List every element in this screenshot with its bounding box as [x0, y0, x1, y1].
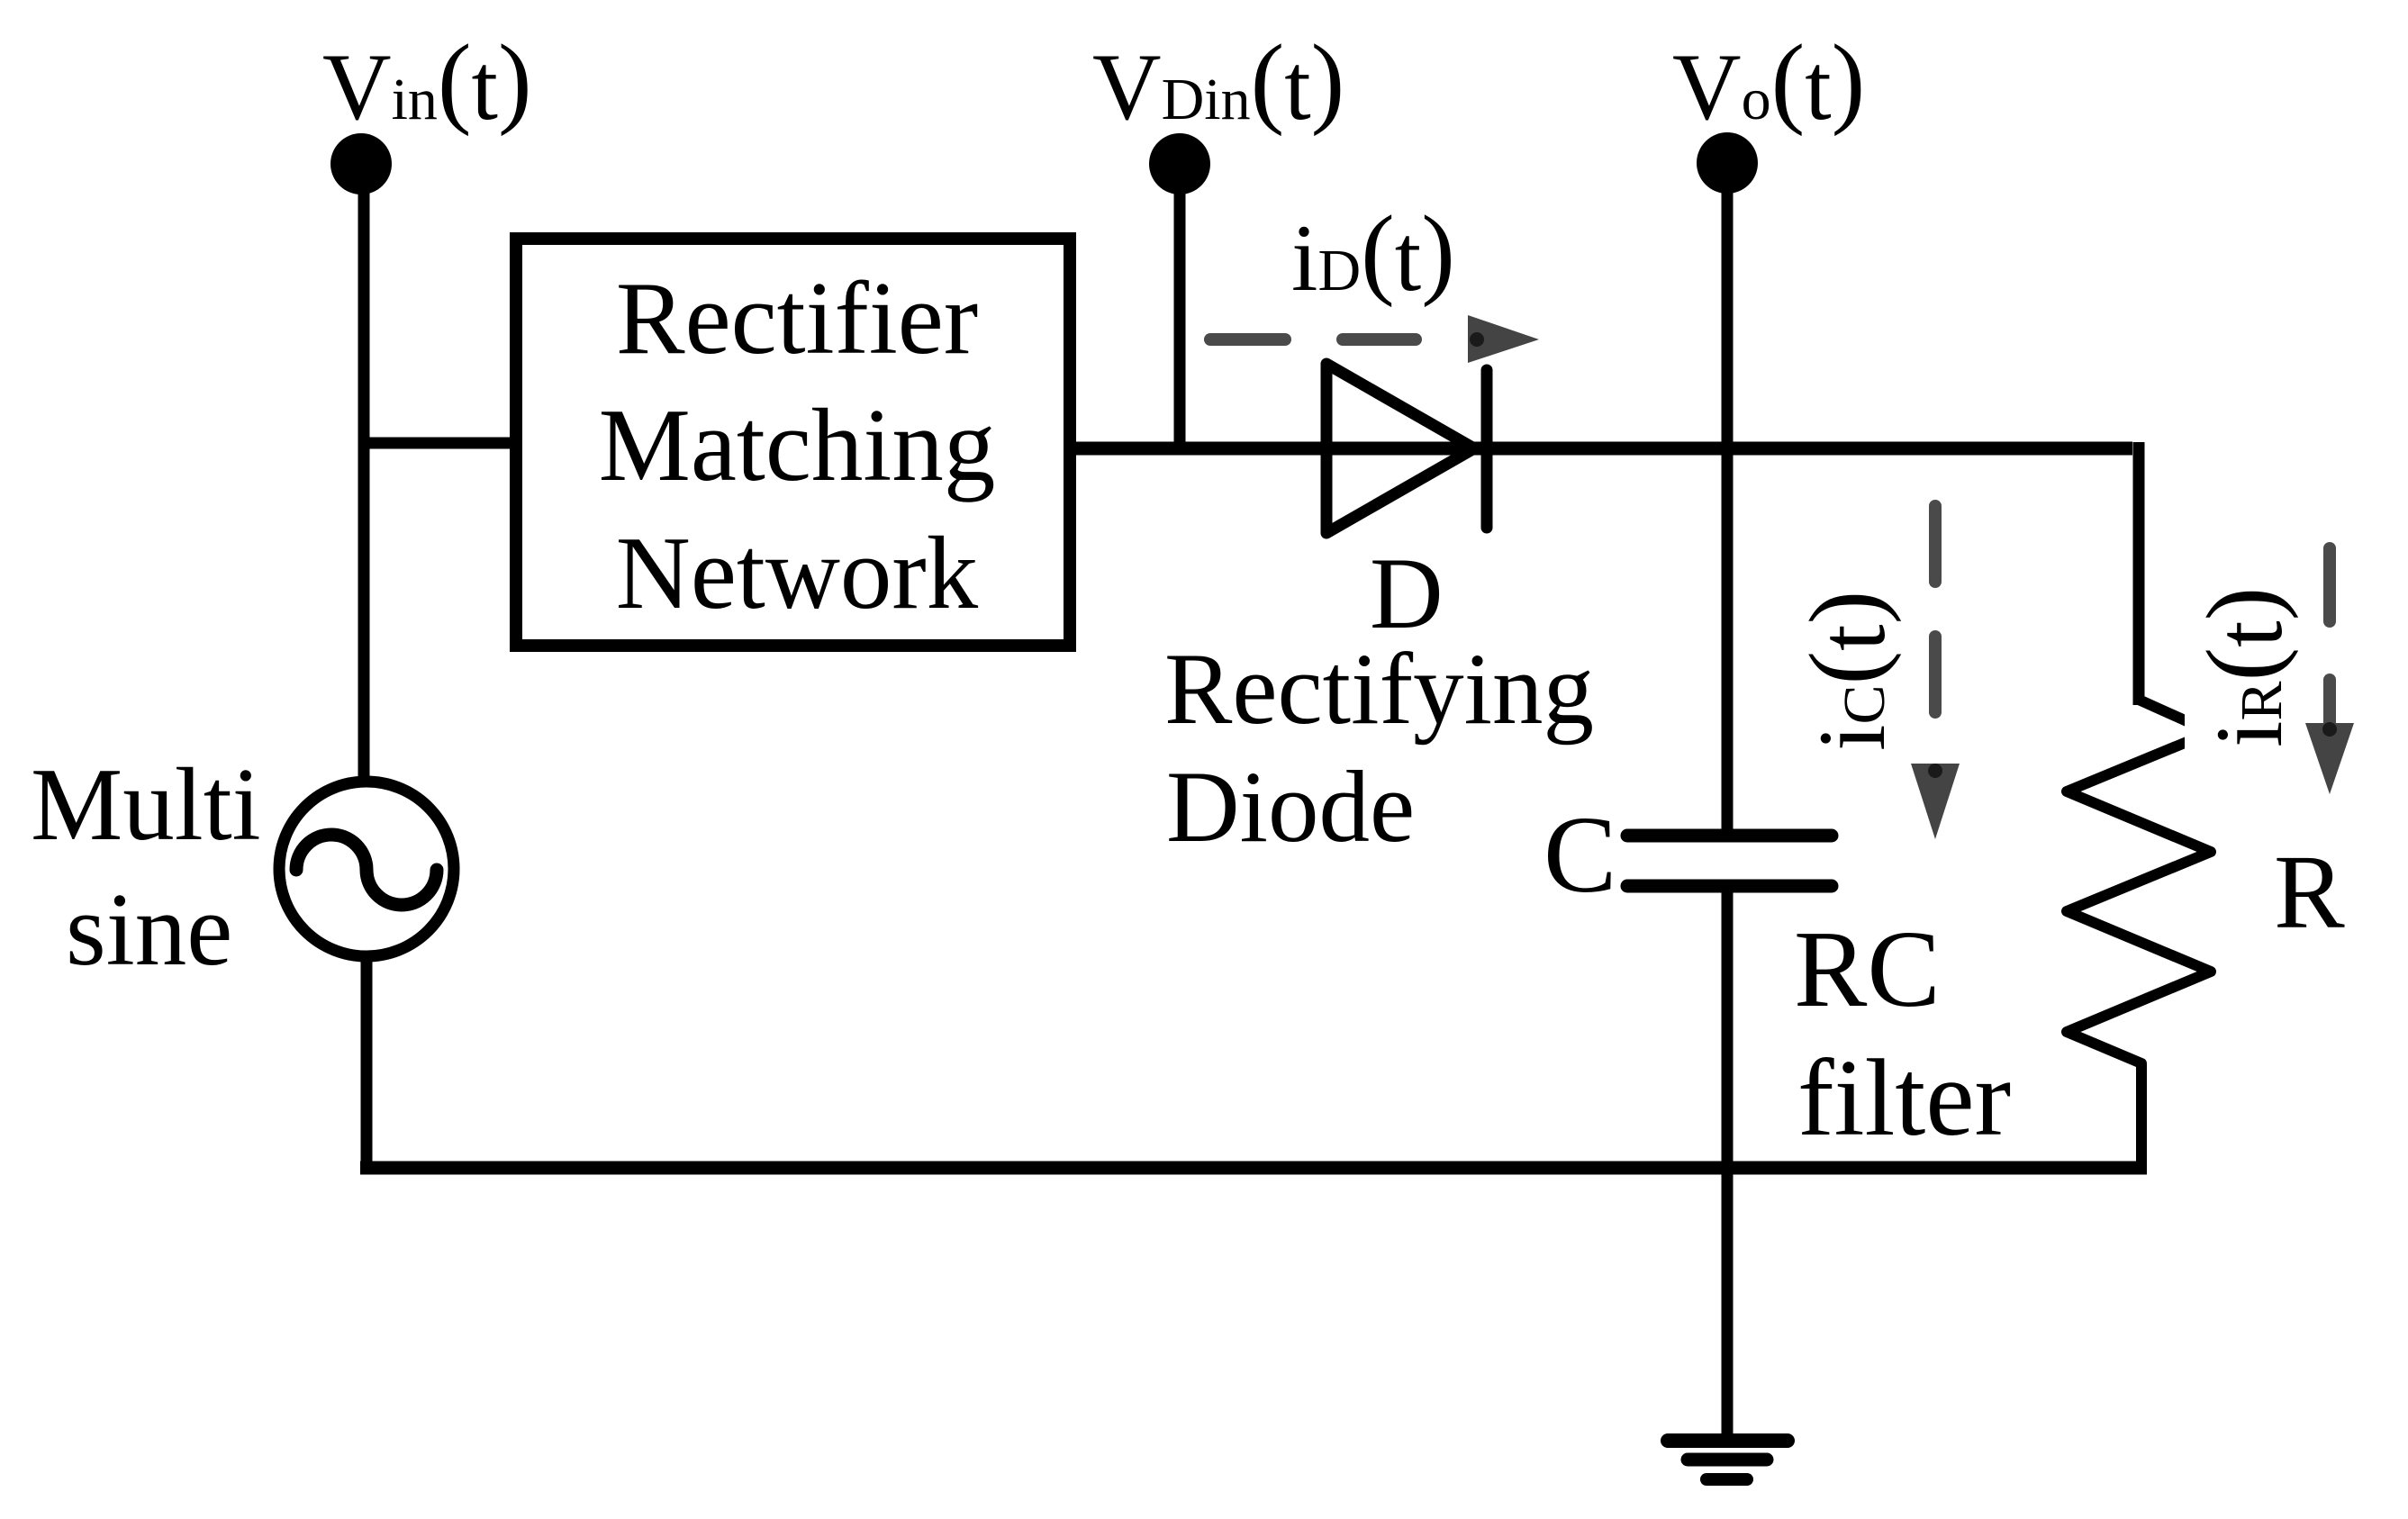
- label RC: [1794, 909, 1941, 1030]
- svg-text:sine: sine: [66, 873, 232, 987]
- svg-text:Matching: Matching: [599, 388, 996, 502]
- node Vo(t) terminal: [1697, 132, 1758, 194]
- svg-text:filter: filter: [1797, 1037, 2011, 1159]
- label D: [1370, 538, 1444, 650]
- svg-text:iC(t): iC(t): [1789, 591, 1905, 751]
- svg-text:iD(t): iD(t): [1291, 195, 1455, 311]
- svg-text:iR(t): iR(t): [2186, 587, 2302, 747]
- box Rectifier Matching Network: [516, 239, 1070, 646]
- label filter: [1797, 1037, 2011, 1159]
- label Multi: [31, 747, 261, 862]
- capacitor C top plate: [1627, 829, 1832, 843]
- label iD(t): [1291, 195, 1455, 311]
- svg-text:Network: Network: [616, 516, 979, 630]
- label sine: [66, 873, 232, 987]
- wire Vo terminal down to capacitor: [1722, 178, 1734, 829]
- label Diode: [1166, 751, 1415, 863]
- svg-text:RC: RC: [1794, 909, 1941, 1030]
- current arrow iD dashed: [1210, 315, 1539, 363]
- ground: [1668, 1441, 1788, 1479]
- label Vo(t): [1672, 24, 1865, 140]
- label C: [1543, 794, 1616, 916]
- diode D cathode bar: [1481, 370, 1493, 528]
- capacitor C bottom plate: [1627, 880, 1832, 893]
- node VDin(t) terminal: [1149, 133, 1210, 194]
- label Network: [616, 516, 979, 630]
- wire capacitor bottom to bottom rail: [1722, 886, 1734, 1174]
- label VDin(t): [1092, 24, 1344, 140]
- diode D anode triangle: [1326, 364, 1474, 533]
- node Vin(t) terminal: [330, 133, 392, 194]
- label Matching: [599, 388, 996, 502]
- svg-text:R: R: [2274, 833, 2345, 951]
- wire Vin terminal down to source top: [358, 180, 370, 782]
- label iR(t) rotated: [2186, 587, 2302, 747]
- label Vin(t): [322, 24, 532, 140]
- wire source bottom to bottom rail: [361, 956, 373, 1174]
- wire Vin node to matching network input: [358, 438, 513, 449]
- wire bottom rail to ground: [1722, 1168, 1734, 1433]
- current arrow iC dashed: [1911, 506, 1960, 839]
- source Multi sine circle: [279, 782, 454, 956]
- wire matching network output to right rail: [1076, 442, 2139, 705]
- svg-text:Rectifier: Rectifier: [616, 261, 978, 375]
- label Rectifier: [616, 261, 978, 375]
- resistor R zigzag: [2067, 700, 2251, 1171]
- wire VDin terminal to main wire: [1174, 178, 1186, 448]
- label iC(t) rotated: [1789, 591, 1905, 751]
- label Rectifying: [1164, 633, 1594, 746]
- label R: [2274, 833, 2345, 951]
- svg-text:C: C: [1543, 794, 1616, 916]
- wire bottom rail: [360, 1162, 2147, 1175]
- svg-text:Multi: Multi: [31, 747, 261, 862]
- sine symbol inside source: [296, 835, 437, 905]
- current arrow iR dashed: [2305, 548, 2354, 794]
- svg-text:Rectifying: Rectifying: [1164, 633, 1594, 746]
- svg-text:Diode: Diode: [1166, 751, 1415, 863]
